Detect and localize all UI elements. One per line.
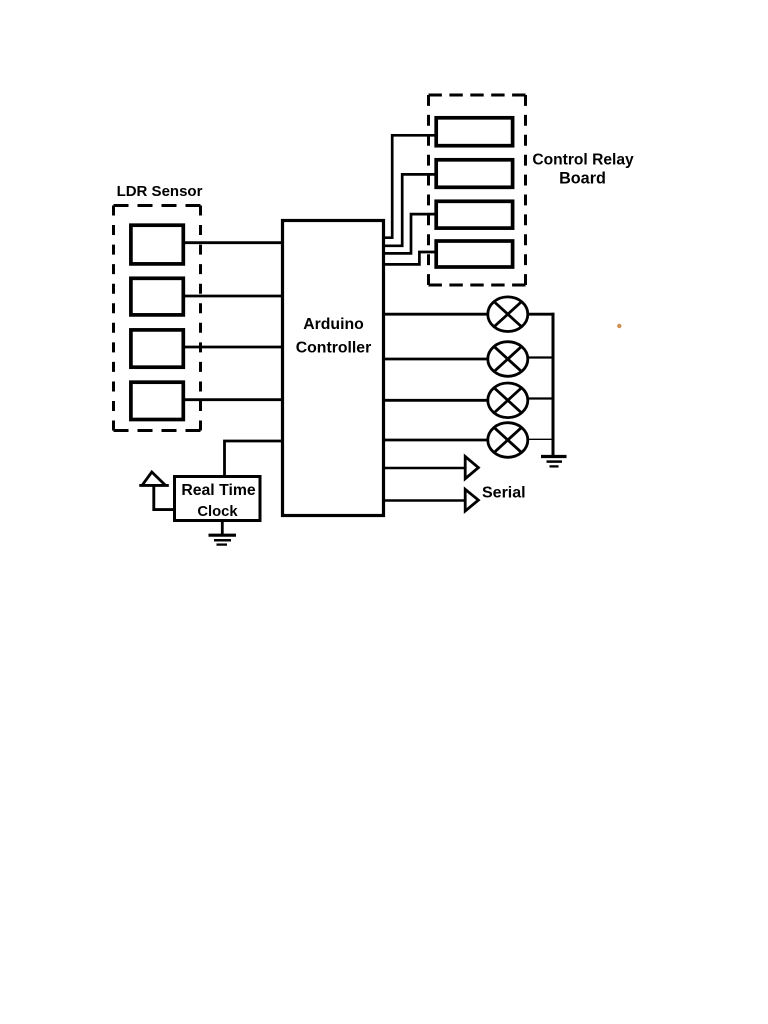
svg-text:Clock: Clock	[197, 504, 238, 520]
relay box 4	[436, 241, 512, 267]
wire lamp 4 to bus	[528, 438, 553, 440]
wire Arduino serial 1	[384, 467, 465, 470]
LDR sensor box 3	[131, 330, 183, 367]
Real Time Clock box	[175, 477, 261, 521]
serial buffer symbol 2	[465, 489, 478, 511]
stray orange dot artifact	[617, 324, 621, 328]
lamp 1	[488, 297, 528, 332]
wire Arduino to lamp 1	[384, 313, 488, 316]
wire LDR1 to Arduino	[184, 241, 283, 244]
wire Arduino to lamp 4	[384, 439, 488, 442]
svg-text:Control Relay: Control Relay	[532, 152, 634, 169]
svg-text:Arduino: Arduino	[303, 316, 364, 333]
lamp 4	[488, 423, 528, 458]
LDR sensor box 2	[131, 278, 183, 315]
wire LDR4 to Arduino	[184, 398, 283, 401]
serial buffer symbol 1	[465, 457, 478, 479]
wire LDR2 to Arduino	[184, 295, 283, 298]
wire Arduino to relay 1	[384, 135, 437, 237]
lamp 3	[488, 383, 528, 418]
wire Arduino to relay 3	[384, 214, 437, 253]
ground RTC	[209, 535, 237, 544]
wire lamp 1 to bus	[528, 313, 555, 316]
svg-text:Board: Board	[559, 170, 606, 188]
lamp bus wire	[552, 313, 555, 456]
relay box 3	[436, 201, 512, 228]
svg-text:Serial: Serial	[482, 485, 526, 502]
ground right	[541, 457, 567, 467]
power symbol arrow	[139, 472, 174, 510]
LDR sensor box 1	[131, 225, 183, 264]
wire lamp 3 to bus	[528, 397, 553, 399]
Control Relay Board dashed outline	[429, 95, 526, 285]
relay box 2	[436, 160, 512, 188]
wire Arduino to lamp 2	[384, 358, 488, 361]
wire Arduino to relay 4	[384, 252, 437, 264]
relay box 1	[436, 118, 512, 146]
wire RTC to Arduino	[225, 441, 283, 477]
wire Arduino to relay 2	[384, 174, 437, 245]
wire lamp 2 to bus	[528, 356, 553, 358]
LDR sensor box 4	[131, 382, 183, 419]
lamp 2	[488, 342, 528, 377]
wire RTC to ground	[221, 521, 224, 535]
Arduino Controller box	[283, 221, 384, 516]
svg-text:Controller: Controller	[296, 340, 371, 357]
wire Arduino serial 2	[384, 499, 465, 502]
svg-text:Real Time: Real Time	[181, 482, 256, 499]
LDR Sensor dashed board outline	[114, 206, 201, 431]
wire Arduino to lamp 3	[384, 399, 488, 402]
svg-text:LDR Sensor: LDR Sensor	[117, 183, 203, 200]
wire LDR3 to Arduino	[184, 346, 283, 349]
